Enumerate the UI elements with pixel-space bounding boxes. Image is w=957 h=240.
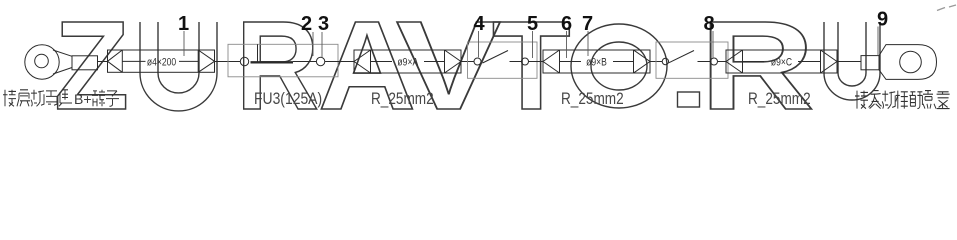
connector 2 slash: [669, 51, 694, 63]
svg-text:3: 3: [318, 13, 329, 35]
leader 4: [478, 31, 480, 57]
fuse terminal circle left: [240, 57, 248, 65]
part labels: [254, 90, 811, 109]
svg-text:9: 9: [877, 9, 888, 31]
svg-text:8: 8: [703, 13, 714, 35]
leader 8: [712, 31, 714, 58]
wire: [529, 61, 544, 63]
fuse holder box: [228, 44, 338, 77]
wire: [650, 61, 662, 63]
wire: [698, 61, 711, 63]
svg-text:2: 2: [301, 13, 312, 35]
leader 1: [183, 31, 185, 56]
wire: [461, 61, 474, 63]
corner dashes top right: [937, 5, 956, 11]
connector 2 terminal circle right: [711, 58, 718, 65]
connector 2 terminal circle left: [662, 58, 668, 64]
leader 3: [321, 32, 323, 57]
item numbers: [178, 9, 888, 36]
leader 7: [587, 31, 589, 56]
svg-text:R_25mm2: R_25mm2: [371, 90, 434, 109]
watermark ZURAVTO.RU outlined letters: [54, 0, 880, 137]
fuse lid divider: [257, 44, 259, 62]
svg-text:R_25mm2: R_25mm2: [561, 90, 624, 109]
watermark letter U2: [824, 22, 880, 100]
wire: [98, 61, 108, 63]
watermark letter U: [140, 22, 217, 111]
svg-text:ø9×A: ø9×A: [397, 57, 418, 69]
ring terminal left (to starter motor B+): [25, 45, 98, 79]
fuse terminal circle right: [316, 57, 324, 65]
svg-text:FU3(125A): FU3(125A): [254, 90, 322, 109]
svg-text:7: 7: [582, 13, 593, 35]
wire: [510, 61, 522, 63]
ring terminal right (to glow plug): [861, 45, 937, 80]
svg-text:4: 4: [473, 13, 485, 35]
svg-text:B+: B+: [74, 91, 92, 107]
svg-text:6: 6: [561, 13, 572, 35]
leader 5: [532, 31, 534, 58]
leader 2: [312, 32, 314, 56]
sleeve tube ø4x200: [108, 50, 215, 72]
chinese label left: 接启动马达B+端子: [3, 90, 72, 107]
sleeve tube ø9xC: [726, 50, 837, 73]
connector 1 slash: [483, 51, 509, 64]
svg-text:1: 1: [178, 13, 189, 35]
svg-text:ø4×200: ø4×200: [147, 57, 177, 69]
watermark letter O: [571, 24, 667, 108]
fuse link FU3: [251, 61, 294, 63]
svg-text:R_25mm2: R_25mm2: [748, 90, 811, 109]
wire: [325, 61, 354, 63]
leader 9: [877, 27, 879, 56]
connector pair 2 box: [656, 42, 728, 78]
sleeve tube ø9xA: [354, 50, 461, 73]
leader 6: [566, 31, 568, 58]
connector pair 1 box: [468, 42, 538, 78]
leader lines: [184, 27, 878, 59]
watermark period: [678, 92, 700, 107]
svg-text:ø9×B: ø9×B: [586, 57, 607, 69]
svg-text:ø9×C: ø9×C: [771, 57, 792, 69]
chinese label right: 接发动机预热塞: [855, 91, 950, 109]
wire: [837, 61, 861, 63]
wire: [718, 61, 726, 63]
wire: [215, 61, 241, 63]
schematic: [25, 42, 937, 79]
svg-text:5: 5: [527, 13, 538, 35]
connector 1 terminal circle right: [522, 58, 529, 65]
sleeve tube ø9xB: [543, 50, 650, 73]
connector 1 terminal circle left: [474, 58, 481, 65]
